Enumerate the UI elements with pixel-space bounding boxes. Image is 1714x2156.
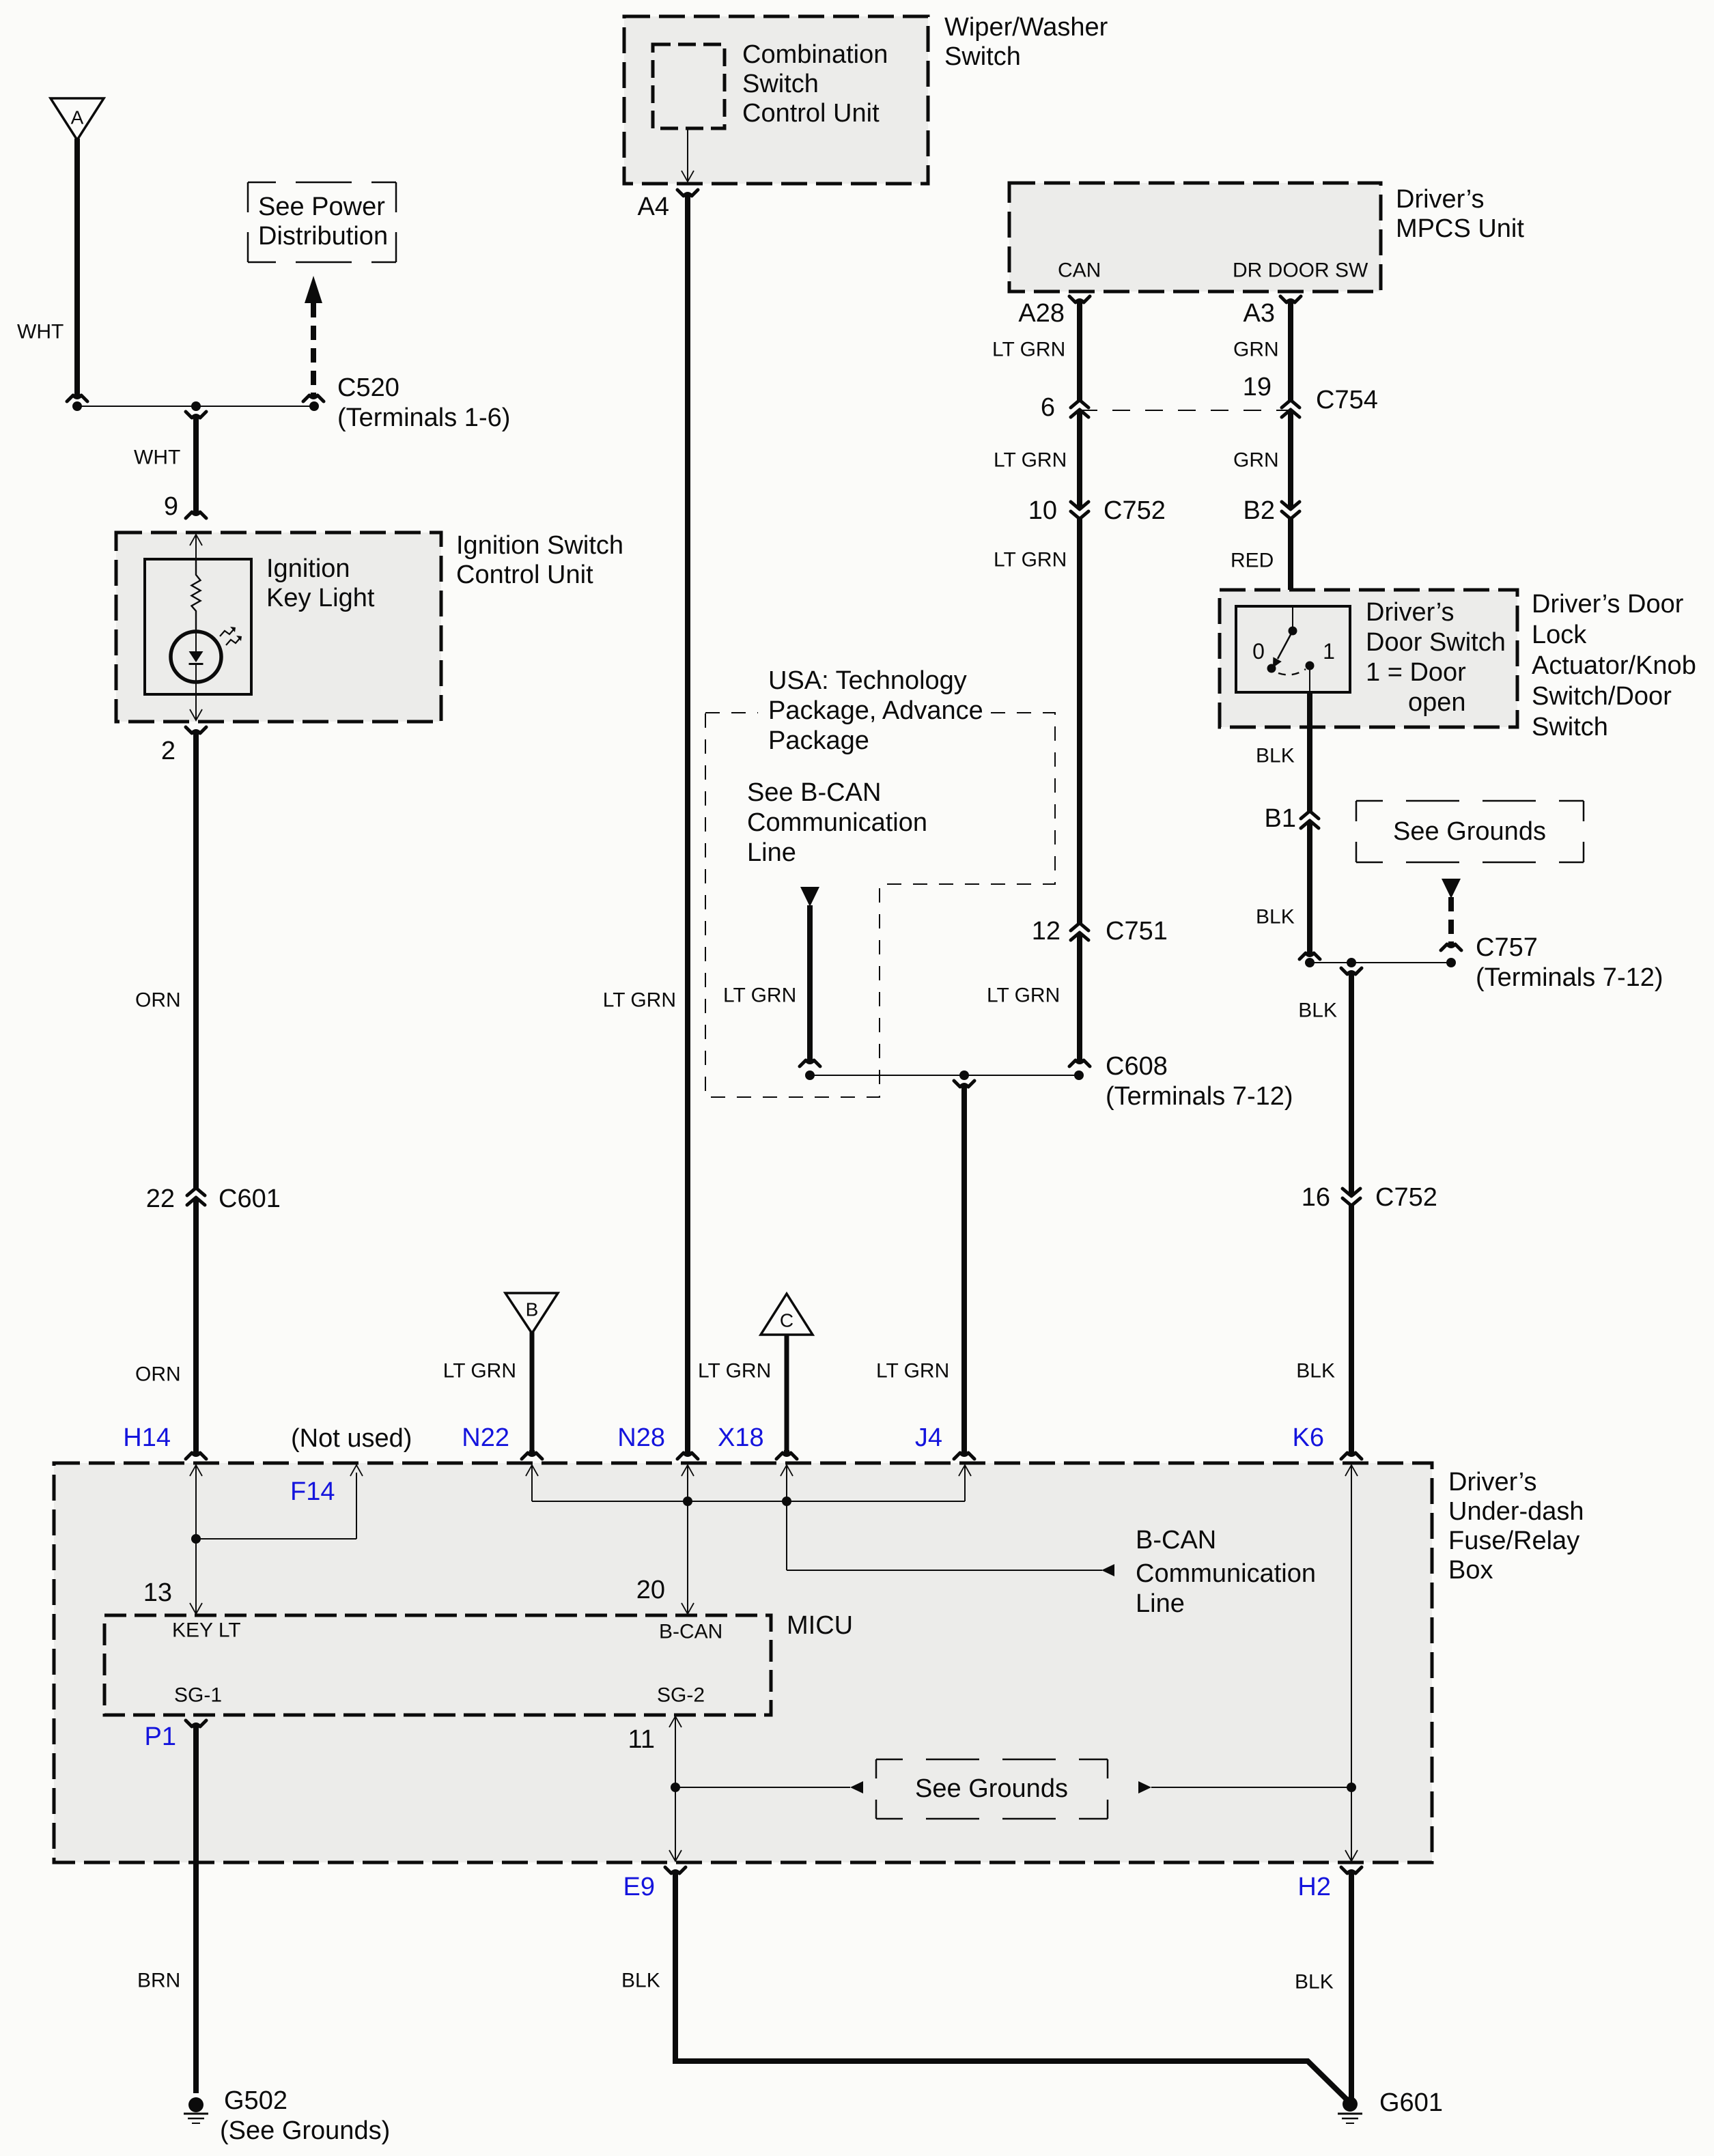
wire ground branch left [675, 1787, 850, 1788]
wire LT GRN B to N22 [530, 1332, 535, 1451]
svg-text:KEY LT: KEY LT [172, 1619, 241, 1642]
svg-text:MICU: MICU [787, 1611, 853, 1640]
svg-text:Line: Line [747, 838, 796, 867]
svg-text:Driver’s: Driver’s [1366, 598, 1455, 627]
wire C608 junction line [810, 1075, 1079, 1076]
svg-text:BLK: BLK [1256, 745, 1295, 767]
node C757 middle [1347, 958, 1356, 967]
svg-text:1: 1 [1323, 639, 1335, 664]
svg-text:USA: Technology: USA: Technology [768, 666, 967, 695]
connector K6 branch [1349, 972, 1354, 977]
svg-text:C751: C751 [1106, 917, 1168, 946]
svg-text:C601: C601 [219, 1185, 281, 1213]
connector C751 pin 12 [1071, 923, 1088, 931]
connector terminal H2 [1349, 1871, 1354, 1876]
node C608 middle [959, 1070, 969, 1080]
svg-text:Driver’s: Driver’s [1448, 1468, 1537, 1497]
wire internal bus line [532, 1501, 965, 1502]
svg-text:Distribution: Distribution [258, 222, 388, 251]
svg-text:C752: C752 [1104, 496, 1166, 525]
LED lamp ignition key light [171, 632, 221, 682]
connector terminal P1 [193, 1725, 199, 1729]
See Grounds box upper [1356, 801, 1584, 862]
wire WHT to ignition switch [193, 419, 199, 511]
wire LT GRN 10 to C751 [1077, 519, 1082, 923]
svg-text:2: 2 [161, 737, 175, 765]
svg-text:X18: X18 [718, 1423, 764, 1452]
ignition switch control unit box [116, 533, 441, 722]
svg-text:(Terminals 1-6): (Terminals 1-6) [337, 403, 510, 432]
connector terminal N22 [529, 1450, 535, 1455]
drivers door lock actuator box [1220, 590, 1517, 727]
svg-text:BLK: BLK [621, 1970, 660, 1992]
svg-text:Key Light: Key Light [266, 584, 375, 612]
dashed power wire [311, 303, 316, 395]
wire N28 internal to B-CAN 20 [682, 1465, 694, 1476]
wire X18 internal [781, 1465, 793, 1476]
svg-text:Actuator/Knob: Actuator/Knob [1532, 651, 1696, 680]
svg-text:12: 12 [1032, 917, 1060, 946]
svg-text:open: open [1408, 688, 1466, 717]
svg-text:BLK: BLK [1296, 1360, 1335, 1382]
svg-text:P1: P1 [145, 1722, 176, 1751]
svg-text:K6: K6 [1293, 1423, 1324, 1452]
wire GRN 19 to B2 [1288, 410, 1293, 509]
svg-text:Package: Package [768, 726, 869, 755]
connector pin B1 [1301, 811, 1319, 819]
svg-text:A28: A28 [1018, 299, 1065, 328]
arrow see grounds right [1138, 1781, 1151, 1793]
svg-text:22: 22 [146, 1185, 175, 1213]
wire contact 1 to box edge [1309, 668, 1310, 692]
svg-text:6: 6 [1041, 393, 1055, 422]
connector half C520 (A side) [74, 393, 80, 397]
svg-text:LT GRN: LT GRN [603, 989, 676, 1012]
svg-text:Line: Line [1136, 1589, 1185, 1618]
wire J4 internal [959, 1465, 971, 1476]
svg-text:(Terminals 7-12): (Terminals 7-12) [1106, 1082, 1293, 1111]
connector C752 pin B2 [1282, 502, 1299, 509]
arrow see grounds left [850, 1781, 863, 1793]
wire WHT from A [74, 139, 80, 395]
connector terminal 9 [193, 509, 199, 514]
svg-text:B2: B2 [1244, 496, 1275, 525]
LED emission arrows [220, 629, 234, 636]
connector J4 branch [961, 1085, 967, 1090]
connector triangle B [505, 1293, 558, 1333]
node junction WHT [191, 401, 201, 411]
connector half C757 (switch side) [1307, 950, 1312, 955]
svg-text:Combination: Combination [742, 40, 888, 69]
C754 connector dashed link [1080, 410, 1291, 411]
connector terminal H14 [193, 1450, 199, 1455]
svg-text:LT GRN: LT GRN [994, 449, 1067, 472]
svg-text:GRN: GRN [1233, 339, 1279, 361]
svg-text:J4: J4 [915, 1423, 942, 1452]
connector C754 pin 6 [1071, 400, 1088, 408]
wire LT GRN C to X18 [785, 1335, 789, 1451]
wire C520 junction line [77, 406, 314, 407]
node junction A [72, 401, 82, 411]
wire BLK H2 to G601 [1349, 1874, 1354, 2101]
svg-text:C754: C754 [1316, 386, 1378, 414]
svg-text:11: 11 [628, 1725, 655, 1754]
connector half C608 (stub side) [807, 1058, 813, 1062]
svg-text:LT GRN: LT GRN [994, 549, 1067, 571]
svg-text:ORN: ORN [135, 989, 181, 1012]
svg-text:Wiper/Washer: Wiper/Washer [944, 13, 1108, 42]
connector half C520 (power side) [311, 393, 316, 397]
wire K6 internal [1345, 1465, 1358, 1476]
arrow B-CAN communication [1101, 1564, 1114, 1576]
wire ORN 2 [193, 1197, 199, 1451]
svg-text:Control Unit: Control Unit [742, 99, 880, 128]
switch SW1 contact 1 [1306, 662, 1315, 670]
svg-text:SG-1: SG-1 [174, 1684, 222, 1707]
wire B-CAN communication branch [786, 1501, 787, 1570]
svg-text:DR DOOR SW: DR DOOR SW [1233, 259, 1368, 282]
ignition key light box [145, 559, 251, 694]
svg-text:See Grounds: See Grounds [915, 1774, 1068, 1803]
wire BLK to C752 16 [1349, 975, 1354, 1196]
svg-text:BLK: BLK [1256, 906, 1295, 928]
svg-text:See Power: See Power [258, 193, 385, 221]
wire BLK door switch [1307, 692, 1312, 811]
svg-text:A3: A3 [1244, 299, 1275, 328]
svg-text:B-CAN: B-CAN [1136, 1526, 1216, 1555]
switch SW1 arm [1278, 631, 1293, 659]
svg-text:C608: C608 [1106, 1052, 1168, 1081]
svg-text:Communication: Communication [747, 808, 927, 837]
wire K6 to H2 [1351, 1787, 1352, 1861]
connector triangle A [51, 98, 104, 140]
svg-text:WHT: WHT [17, 321, 64, 343]
drivers MPCS unit box [1009, 183, 1381, 292]
svg-text:H2: H2 [1297, 1873, 1331, 1901]
svg-text:BRN: BRN [137, 1970, 180, 1992]
svg-text:G601: G601 [1379, 2088, 1443, 2117]
wire BRN to G502 [193, 1727, 199, 2093]
connector terminal J4 [961, 1450, 967, 1455]
wire ORN [193, 734, 199, 1188]
wire LT GRN A28 [1077, 303, 1082, 400]
drivers door switch inner box [1236, 606, 1350, 692]
wire terminal 2 internal [195, 694, 197, 720]
node junction C520 right [309, 401, 319, 411]
svg-text:LT GRN: LT GRN [443, 1360, 516, 1382]
svg-text:BLK: BLK [1298, 999, 1337, 1022]
combination switch control unit box [653, 44, 725, 128]
svg-text:F14: F14 [290, 1477, 335, 1506]
svg-text:10: 10 [1028, 496, 1057, 525]
svg-text:B-CAN: B-CAN [659, 1621, 722, 1643]
See Grounds box lower [876, 1759, 1108, 1819]
svg-text:16: 16 [1302, 1183, 1330, 1212]
svg-text:Driver’s Door: Driver’s Door [1532, 590, 1684, 619]
node C608 right [1074, 1070, 1084, 1080]
svg-text:Ignition: Ignition [266, 554, 350, 583]
wire combination switch internal [687, 128, 688, 181]
node SG ground branch [671, 1783, 680, 1792]
svg-text:20: 20 [636, 1576, 665, 1604]
svg-text:BLK: BLK [1295, 1971, 1334, 1994]
switch SW1 throw arc [1278, 669, 1306, 675]
switch SW1 pivot [1292, 606, 1293, 627]
svg-text:ORN: ORN [135, 1363, 181, 1386]
wire SG-2 to E9 [669, 1716, 682, 1727]
svg-text:LT GRN: LT GRN [698, 1360, 771, 1382]
label USA Technology Package [758, 662, 990, 751]
svg-text:B: B [526, 1299, 539, 1320]
svg-text:0: 0 [1252, 639, 1265, 664]
svg-text:Control Unit: Control Unit [456, 561, 593, 589]
svg-text:Switch: Switch [1532, 713, 1608, 741]
svg-text:H14: H14 [123, 1423, 171, 1452]
svg-text:Package, Advance: Package, Advance [768, 696, 983, 725]
resistor R ignition key light [192, 559, 201, 632]
svg-text:CAN: CAN [1058, 259, 1101, 282]
wire N22 internal [526, 1465, 538, 1476]
node H14 branch [191, 1534, 201, 1544]
svg-text:B1: B1 [1265, 804, 1296, 833]
svg-text:C752: C752 [1375, 1183, 1437, 1212]
svg-text:G502: G502 [224, 2086, 287, 2115]
ground G502 [188, 2097, 203, 2112]
svg-text:(See Grounds): (See Grounds) [220, 2116, 390, 2145]
arrow to power distribution [305, 276, 322, 303]
wire LT GRN to J4 [961, 1088, 967, 1451]
node C757 right [1446, 958, 1456, 967]
svg-text:Switch: Switch [742, 70, 819, 98]
svg-text:Switch/Door: Switch/Door [1532, 682, 1672, 711]
connector terminal E9 [673, 1871, 678, 1876]
wire GRN A3 [1288, 303, 1293, 400]
node C757 left [1305, 958, 1315, 967]
svg-text:MPCS Unit: MPCS Unit [1396, 214, 1524, 243]
svg-text:13: 13 [143, 1578, 172, 1607]
wire H14 internal [190, 1465, 202, 1476]
svg-text:9: 9 [164, 492, 178, 521]
wire H14 to F14 branch [196, 1538, 356, 1540]
svg-text:Switch: Switch [944, 42, 1021, 71]
ground G601 [1343, 2097, 1358, 2112]
wire H14 to KEY LT 13 [195, 1539, 197, 1614]
connector triangle C [761, 1294, 813, 1335]
svg-text:LT GRN: LT GRN [723, 984, 796, 1007]
node K6 ground branch [1347, 1783, 1356, 1792]
USA technology package outline [705, 713, 1055, 1097]
svg-text:C520: C520 [337, 373, 399, 402]
MICU box [104, 1615, 771, 1715]
connector terminal 2 [193, 731, 199, 736]
svg-text:Door Switch: Door Switch [1366, 628, 1506, 657]
svg-text:WHT: WHT [134, 446, 180, 469]
svg-text:Driver’s: Driver’s [1396, 185, 1485, 214]
svg-text:Under-dash: Under-dash [1448, 1497, 1584, 1526]
arrow to B-CAN line [800, 887, 819, 907]
svg-text:Lock: Lock [1532, 621, 1587, 649]
svg-text:Communication: Communication [1136, 1559, 1316, 1588]
connector terminal A4 [685, 194, 690, 199]
wire BLK to K6 [1349, 1206, 1354, 1451]
node C608 left [805, 1070, 815, 1080]
connector C752 pin 16 [1343, 1189, 1360, 1196]
connector C601 pin 22 [187, 1188, 205, 1195]
connector terminal K6 [1349, 1450, 1354, 1455]
svg-text:LT GRN: LT GRN [992, 339, 1065, 361]
connector half C757 (ground side) [1448, 941, 1454, 946]
wire LT GRN A4 to N28 [685, 197, 690, 1451]
svg-text:(Terminals 7-12): (Terminals 7-12) [1476, 963, 1663, 992]
connector terminal X18 [784, 1450, 789, 1455]
svg-text:Ignition Switch: Ignition Switch [456, 531, 623, 560]
dashed ground wire C757 [1448, 897, 1454, 944]
svg-text:1 = Door: 1 = Door [1366, 658, 1466, 687]
svg-text:A: A [71, 107, 84, 128]
wiper washer switch box [624, 16, 928, 184]
svg-text:See B-CAN: See B-CAN [747, 778, 881, 807]
connector terminal A28 [1077, 300, 1082, 305]
drivers under-dash fuse relay box [54, 1463, 1432, 1862]
wire BLK E9 to G601 [675, 1874, 1348, 2101]
node N28 bus [683, 1497, 692, 1506]
wire LT GRN 12 to C608 [1077, 933, 1082, 1060]
switch SW1 contact 0 [1267, 664, 1276, 673]
svg-text:Box: Box [1448, 1556, 1493, 1585]
svg-text:C: C [780, 1310, 793, 1331]
arrow from see grounds [1442, 879, 1461, 898]
wire BLK B1 down [1307, 821, 1312, 952]
svg-text:Fuse/Relay: Fuse/Relay [1448, 1527, 1579, 1555]
svg-text:See Grounds: See Grounds [1393, 817, 1546, 846]
wire RED [1288, 519, 1293, 608]
wire C757 junction line [1310, 962, 1451, 963]
svg-text:19: 19 [1243, 373, 1272, 401]
svg-text:LT GRN: LT GRN [876, 1360, 949, 1382]
connector half C608 (CAN side) [1077, 1058, 1082, 1062]
svg-text:E9: E9 [623, 1873, 655, 1901]
svg-text:GRN: GRN [1233, 449, 1279, 472]
connector terminal A3 [1288, 300, 1293, 305]
See Power Distribution box [248, 182, 396, 262]
svg-text:SG-2: SG-2 [657, 1684, 705, 1707]
connector C752 pin 10 [1071, 502, 1088, 509]
wire ground branch right [1151, 1787, 1351, 1788]
svg-text:N28: N28 [617, 1423, 665, 1452]
connector terminal N28 [685, 1450, 690, 1455]
svg-text:C757: C757 [1476, 933, 1538, 962]
svg-text:(Not used): (Not used) [291, 1424, 412, 1453]
wire LT GRN 6 to 10 [1077, 410, 1082, 509]
connector C754 pin 19 [1282, 400, 1299, 408]
wire terminal 9 internal [190, 535, 202, 545]
svg-text:A4: A4 [638, 193, 669, 221]
svg-text:N22: N22 [462, 1423, 509, 1452]
svg-text:LT GRN: LT GRN [987, 984, 1060, 1007]
connector half C520 (middle) [193, 416, 199, 421]
svg-text:RED: RED [1231, 550, 1274, 572]
wire LT GRN B-CAN stub [807, 905, 813, 1060]
node X18 bus [782, 1497, 791, 1506]
